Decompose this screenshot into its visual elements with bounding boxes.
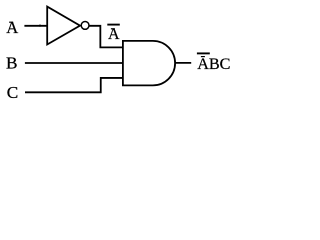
svg-text:ABC: ABC: [197, 55, 230, 73]
svg-text:B: B: [6, 54, 17, 73]
svg-text:A: A: [6, 18, 18, 37]
svg-text:C: C: [7, 83, 18, 102]
